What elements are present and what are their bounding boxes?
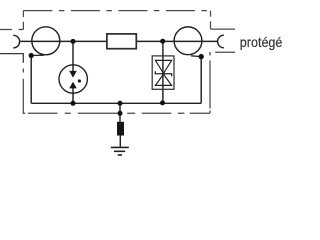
junction dot border crossing [118,111,123,116]
GDT arrow down [69,71,77,78]
svg-text:protégé: protégé [240,34,283,50]
wire: TVS branch [162,41,164,103]
junction dot bottom GDT [71,101,76,106]
junction dot bottom earth [118,101,123,106]
wire: left drop [30,56,32,104]
wire: right riser [200,57,202,104]
wire: GDT upper lead [72,41,74,72]
TVS center bar with Z hooks [155,71,171,76]
wire: earth branch stem [119,136,121,148]
wire: earth branch upper [119,103,121,122]
wire: left circle bottom tap [31,54,44,56]
gas discharge tube GDT circle [59,65,87,93]
resistor R [107,34,136,49]
TVS top triangle [155,60,171,73]
ground bar 1 [111,146,129,148]
wire: right circle bottom tap [191,55,201,58]
ground bar 2 [114,150,125,152]
junction dot top right [160,39,165,44]
terminal arc right (protected output) [218,35,224,48]
junction dot left tap [29,53,34,58]
junction dot right tap [199,54,204,59]
enclosure border right notch bottom [215,51,235,53]
GDT arrow up [69,82,77,89]
junction dot bottom TVS [160,100,165,105]
terminal arc left (unprotected input) [13,35,19,48]
enclosure border top (dash-dot) [23,10,210,12]
GDT gas dot [78,79,81,82]
wire: top line [20,40,217,42]
enclosure border right side lower (dash-dot) [209,52,211,113]
enclosure border bottom (dash-dot) [23,112,210,114]
isolating circle right [174,27,202,55]
junction dot top left [71,39,76,44]
enclosure border right notch top [211,28,236,30]
enclosure border top-right stub [210,11,212,30]
wire: GDT lower lead [72,88,74,103]
enclosure border left notch bottom (solid lead-in) [0,54,23,63]
TVS bottom triangle [155,74,171,85]
earthing resistor (filled) [117,122,124,136]
ground bar 3 [118,154,122,156]
TVS suppressor box [152,56,174,89]
wire: bottom line [31,102,201,104]
enclosure border left side (dash-dot) [22,69,24,114]
isolating circle left [32,27,60,55]
enclosure border left notch top [0,29,23,31]
enclosure border top-left stub [22,11,24,30]
